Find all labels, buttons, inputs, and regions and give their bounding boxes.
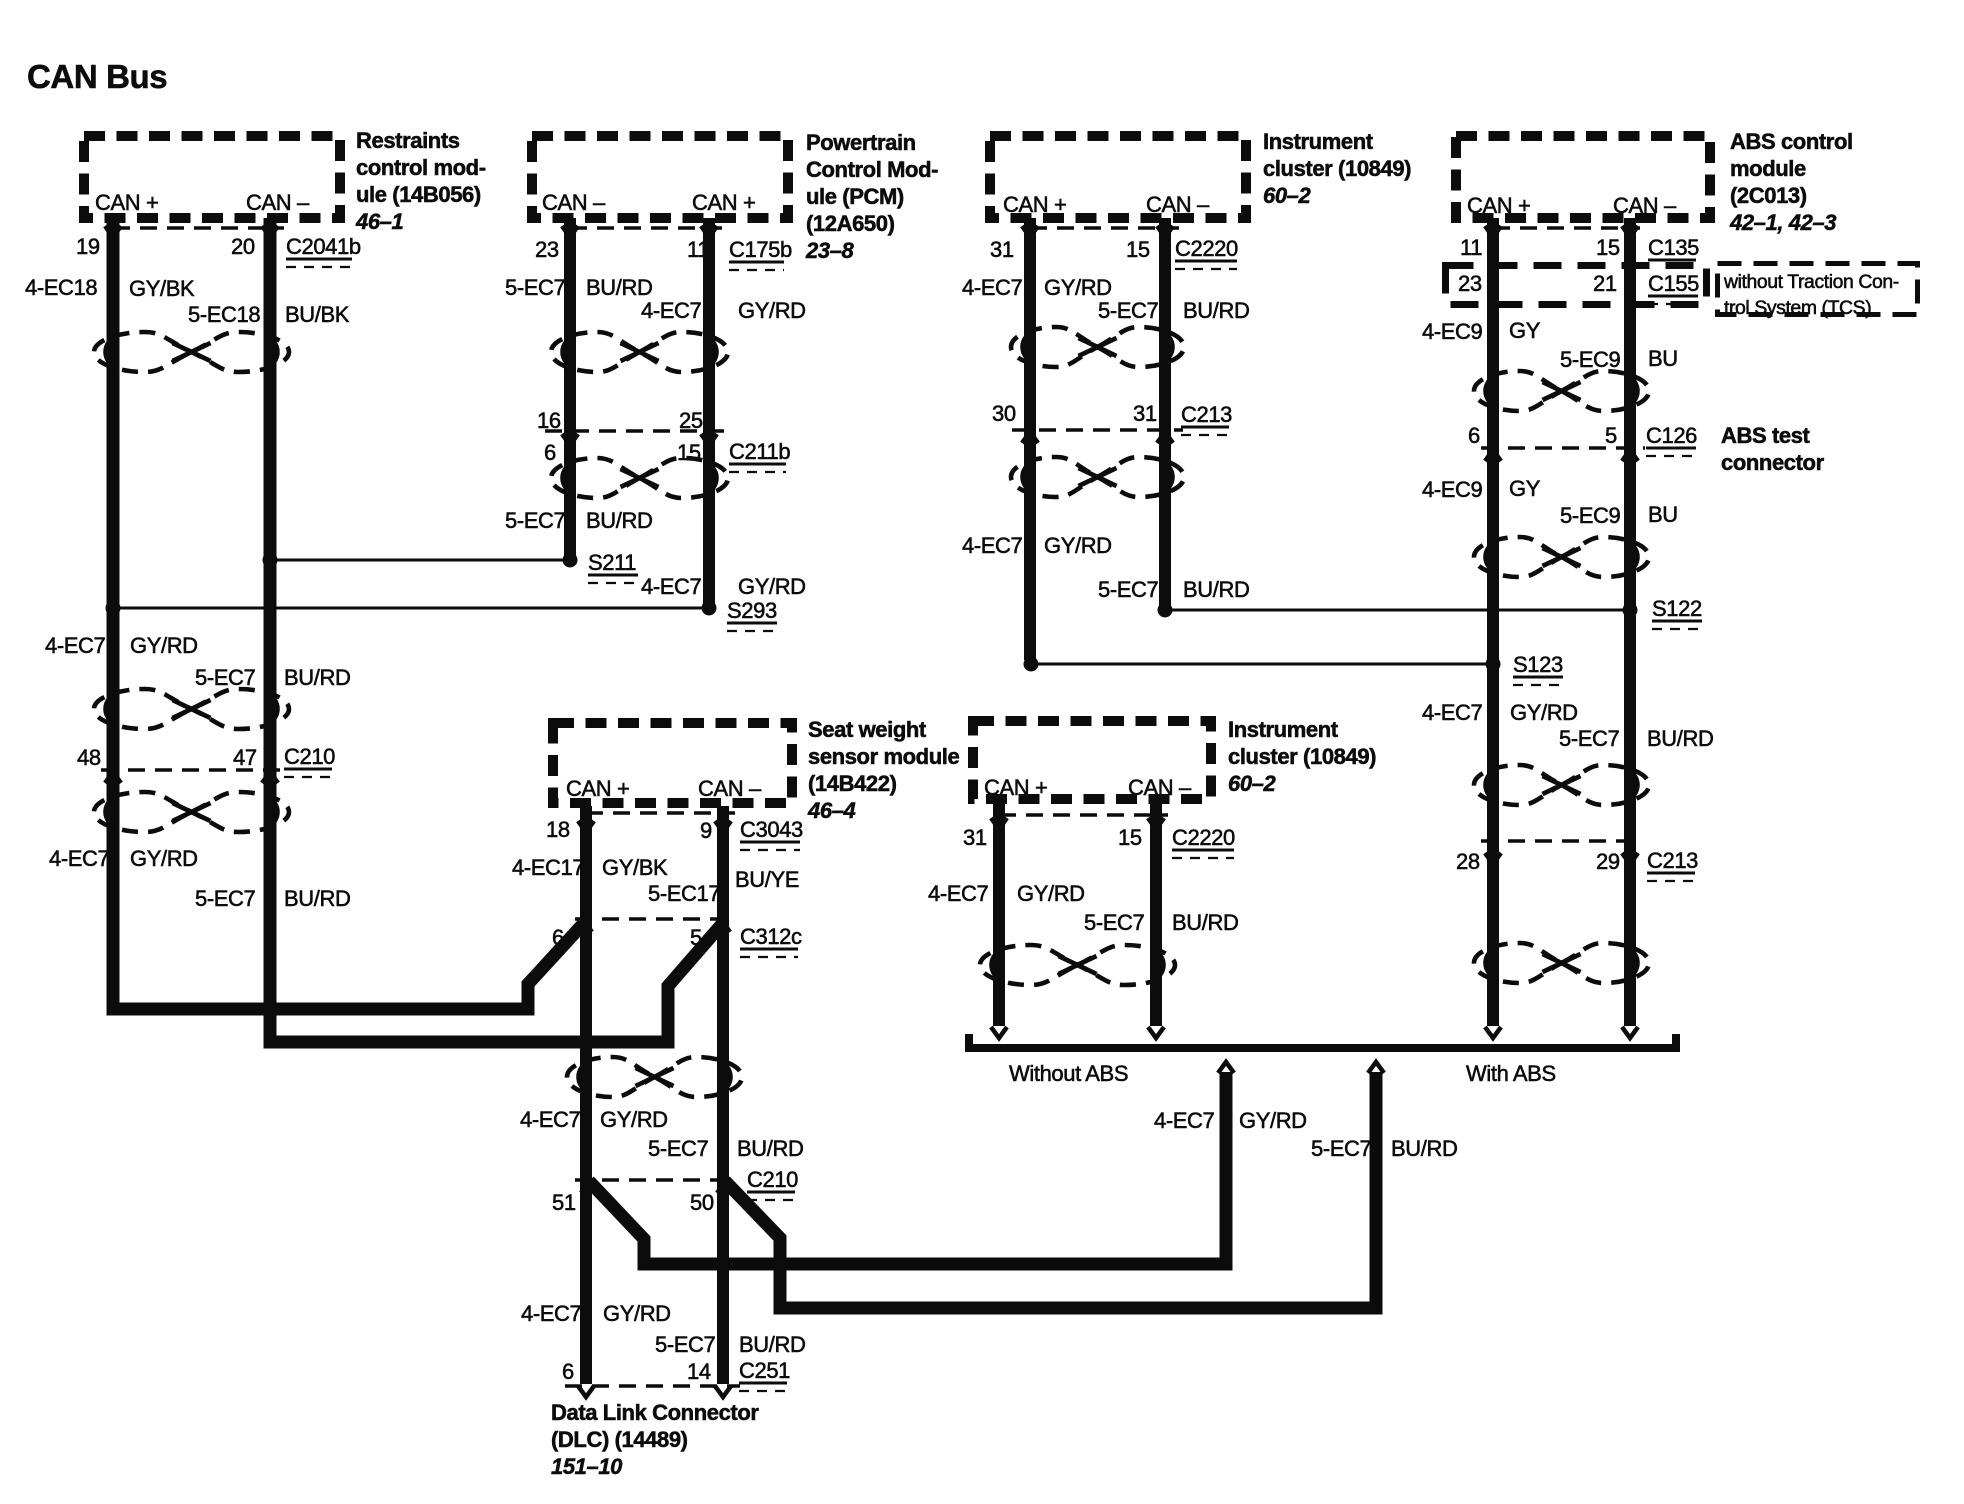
twisted pair IC1 upper: [1011, 327, 1184, 367]
svg-text:23–8: 23–8: [805, 238, 855, 263]
svg-text:CAN –: CAN –: [1146, 192, 1210, 217]
svg-text:15: 15: [1126, 237, 1150, 262]
wire: seat module CAN- through C312c C210 to DLC pin 14: [717, 806, 729, 1384]
junction dot S122 on IC1 CAN-: [1158, 603, 1173, 618]
svg-text:With ABS: With ABS: [1466, 1061, 1556, 1086]
svg-text:S293: S293: [727, 598, 777, 623]
svg-text:C210: C210: [284, 744, 335, 769]
connector C2220 label upper: [1175, 236, 1238, 269]
svg-text:GY: GY: [1509, 476, 1541, 501]
svg-text:BU/YE: BU/YE: [735, 867, 799, 892]
svg-text:4-EC9: 4-EC9: [1422, 319, 1483, 344]
svg-text:connector: connector: [1721, 450, 1825, 475]
arrow pin 14 C251: [715, 1386, 731, 1397]
wire: splice line S293: [113, 607, 709, 610]
svg-text:C213: C213: [1181, 402, 1232, 427]
arrow end IC2 CAN+: [991, 1027, 1007, 1038]
arrow pin 48 C210: [105, 772, 121, 783]
text: Instrument cluster 1 name: [1263, 129, 1411, 208]
arrow pin 23 C175b: [562, 226, 578, 237]
connector C210 lower label: [747, 1167, 798, 1200]
connector C126 dashed line: [1481, 446, 1645, 450]
arrow pin 5 C126: [1622, 450, 1638, 461]
svg-text:5: 5: [1605, 423, 1617, 448]
arrow pin 31 C2220: [1022, 226, 1038, 237]
svg-text:ABS control: ABS control: [1730, 129, 1853, 154]
svg-text:ule (14B056): ule (14B056): [356, 182, 481, 207]
svg-text:30: 30: [992, 401, 1016, 426]
svg-text:23: 23: [1458, 271, 1482, 296]
svg-text:GY: GY: [1509, 318, 1541, 343]
svg-text:5: 5: [690, 925, 702, 950]
svg-text:6: 6: [552, 925, 564, 950]
svg-text:BU/RD: BU/RD: [284, 665, 350, 690]
svg-text:BU/RD: BU/RD: [739, 1332, 805, 1357]
svg-text:(2C013): (2C013): [1730, 183, 1807, 208]
twisted pair PCM lower: [551, 458, 728, 498]
svg-text:cluster (10849): cluster (10849): [1228, 744, 1376, 769]
svg-text:CAN +: CAN +: [1003, 192, 1066, 217]
connector C210 upper dashed line: [101, 768, 284, 772]
wire: instrument cluster 1 CAN- BU/RD to S122: [1159, 218, 1171, 606]
svg-text:5-EC7: 5-EC7: [195, 886, 256, 911]
arrow pin 31 C213: [1157, 432, 1173, 443]
wire: instrument cluster 2 CAN+ GY/RD: [993, 804, 1005, 1026]
svg-text:5-EC7: 5-EC7: [655, 1332, 716, 1357]
svg-text:(12A650): (12A650): [806, 211, 895, 236]
svg-text:CAN Bus: CAN Bus: [27, 58, 167, 95]
svg-text:GY/BK: GY/BK: [129, 276, 195, 301]
arrow end IC2 CAN-: [1148, 1027, 1164, 1038]
wire: restraints CAN+ GY/BK to C312c pin 6: [113, 218, 583, 1009]
connector C211b label: [729, 439, 790, 472]
wire: ABS CAN- BU vertical: [1624, 218, 1636, 1026]
svg-text:5-EC17: 5-EC17: [648, 881, 720, 906]
svg-text:GY/RD: GY/RD: [738, 574, 806, 599]
svg-text:module: module: [1730, 156, 1806, 181]
svg-text:BU/RD: BU/RD: [1183, 577, 1249, 602]
svg-text:5-EC9: 5-EC9: [1560, 503, 1621, 528]
svg-text:BU/RD: BU/RD: [586, 275, 652, 300]
connector C3043 dashed line: [586, 811, 735, 815]
connector C213 label: [1181, 402, 1232, 435]
svg-text:5-EC7: 5-EC7: [1084, 910, 1145, 935]
wire: instrument cluster 1 CAN+ GY/RD to S123: [1024, 218, 1036, 660]
svg-text:5-EC7: 5-EC7: [648, 1136, 709, 1161]
svg-text:CAN +: CAN +: [566, 776, 629, 801]
splice S211 dot: [563, 553, 578, 568]
svg-text:50: 50: [690, 1190, 714, 1215]
svg-text:5-EC7: 5-EC7: [1559, 726, 1620, 751]
svg-text:21: 21: [1593, 271, 1617, 296]
svg-text:GY/RD: GY/RD: [1044, 533, 1112, 558]
twisted pair seat module: [567, 1057, 742, 1097]
arrow pin 28 C213: [1485, 853, 1501, 864]
svg-text:CAN –: CAN –: [542, 190, 606, 215]
arrow end ABS CAN-: [1622, 1027, 1638, 1038]
svg-text:28: 28: [1456, 849, 1480, 874]
wire: PCM CAN+ GY/RD to S293: [703, 218, 715, 604]
arrow pin 19 C2041b: [105, 226, 121, 237]
splice S123 dot on ABS CAN+: [1486, 657, 1501, 672]
module box: ABS control module (2C013): [1456, 136, 1710, 218]
twisted pair restraints third: [94, 792, 289, 832]
connector C2041b dashed line: [113, 226, 284, 230]
connector C312c dashed line: [575, 917, 736, 921]
twisted pair restraints: [94, 332, 289, 372]
svg-text:4-EC7: 4-EC7: [1154, 1108, 1215, 1133]
svg-text:S123: S123: [1513, 652, 1563, 677]
connector C210 lower dashed line: [575, 1178, 736, 1182]
junction dot S211 on restraints CAN-: [263, 553, 278, 568]
arrow pin 5 C312c: [714, 921, 730, 932]
arrow pin 29 C213: [1622, 853, 1638, 864]
svg-text:5-EC18: 5-EC18: [188, 302, 260, 327]
connector C126 label: [1646, 423, 1697, 456]
text: Seat weight sensor module name: [807, 717, 959, 823]
svg-text:BU/RD: BU/RD: [1172, 910, 1238, 935]
svg-text:4-EC7: 4-EC7: [520, 1107, 581, 1132]
svg-text:CAN +: CAN +: [95, 190, 158, 215]
arrow pin 51 C210: [581, 1182, 597, 1193]
svg-text:31: 31: [1133, 401, 1157, 426]
connector C213 lower label: [1647, 848, 1698, 881]
svg-text:19: 19: [76, 234, 100, 259]
svg-text:without Traction Con-: without Traction Con-: [1723, 271, 1899, 293]
arrow pin 15 C2220 lower: [1148, 818, 1164, 829]
svg-text:C2220: C2220: [1175, 236, 1238, 261]
svg-text:60–2: 60–2: [1263, 183, 1312, 208]
svg-text:GY/BK: GY/BK: [602, 855, 668, 880]
svg-text:GY/RD: GY/RD: [1017, 881, 1085, 906]
svg-text:C126: C126: [1646, 423, 1697, 448]
splice S293 label: [727, 598, 777, 631]
wire: instrument cluster 2 CAN- BU/RD: [1150, 804, 1162, 1026]
svg-text:GY/RD: GY/RD: [603, 1301, 671, 1326]
svg-text:4-EC18: 4-EC18: [25, 275, 97, 300]
svg-text:Control Mod-: Control Mod-: [806, 157, 938, 182]
svg-text:trol System (TCS): trol System (TCS): [1724, 297, 1871, 319]
svg-text:4-EC7: 4-EC7: [641, 298, 702, 323]
text: without Traction Control System note: [1723, 271, 1899, 319]
text: Data Link Connector name: [551, 1400, 759, 1479]
connector box C155: [1446, 266, 1707, 305]
text: PCM module name: [805, 130, 938, 263]
svg-text:Restraints: Restraints: [356, 128, 460, 153]
svg-text:GY/RD: GY/RD: [130, 633, 198, 658]
svg-text:14: 14: [687, 1359, 711, 1384]
svg-text:C155: C155: [1648, 271, 1699, 296]
svg-text:4-EC9: 4-EC9: [1422, 477, 1483, 502]
svg-text:BU: BU: [1648, 346, 1678, 371]
twisted pair ABS fourth: [1474, 943, 1649, 983]
svg-text:Without ABS: Without ABS: [1009, 1061, 1128, 1086]
svg-text:5-EC9: 5-EC9: [1560, 347, 1621, 372]
arrow end ABS CAN+: [1485, 1027, 1501, 1038]
arrow pin 15 C2220: [1157, 226, 1173, 237]
arrow pin 20 C2041b: [262, 226, 278, 237]
svg-text:6: 6: [544, 440, 556, 465]
arrow pin 15 C211b: [701, 434, 717, 445]
svg-text:4-EC7: 4-EC7: [45, 633, 106, 658]
wire: splice line S122: [1165, 609, 1630, 612]
connector C2220 lower dashed line: [999, 813, 1168, 817]
svg-text:29: 29: [1596, 849, 1620, 874]
connector C213 lower dashed line: [1481, 839, 1643, 843]
wire: splice line S211: [270, 559, 570, 562]
svg-text:S211: S211: [588, 550, 636, 575]
svg-text:5-EC7: 5-EC7: [505, 508, 566, 533]
module box: Instrument cluster (10849) lower: [973, 721, 1211, 799]
svg-text:BU/RD: BU/RD: [1183, 298, 1249, 323]
svg-text:31: 31: [963, 825, 987, 850]
svg-text:Data Link Connector: Data Link Connector: [551, 1400, 759, 1425]
svg-text:BU/RD: BU/RD: [1647, 726, 1713, 751]
svg-text:C251: C251: [739, 1358, 790, 1383]
text: Instrument cluster 2 name: [1228, 717, 1376, 796]
svg-text:46–4: 46–4: [807, 798, 856, 823]
svg-text:11: 11: [1460, 235, 1482, 260]
svg-text:4-EC7: 4-EC7: [49, 846, 110, 871]
module box: Seat weight sensor module (14B422): [553, 723, 792, 803]
svg-text:4-EC7: 4-EC7: [641, 574, 702, 599]
svg-text:ule (PCM): ule (PCM): [806, 184, 904, 209]
module box: Powertrain Control Module PCM (12A650): [532, 136, 788, 218]
svg-text:CAN –: CAN –: [1613, 193, 1677, 218]
arrow pin 30 C213: [1022, 432, 1038, 443]
arrow pin 31 C2220 lower: [991, 818, 1007, 829]
module box: Instrument cluster (10849) upper: [990, 136, 1246, 218]
connector C2041b label: [286, 234, 361, 267]
arrow pin 9 C3043: [715, 821, 731, 832]
twisted pair IC2: [980, 945, 1175, 985]
twisted pair restraints second: [94, 689, 289, 729]
svg-text:GY/RD: GY/RD: [1044, 275, 1112, 300]
svg-text:4-EC17: 4-EC17: [512, 855, 584, 880]
wire: DLC pin 51 branch GY/RD to Without ABS: [589, 1072, 1226, 1264]
svg-text:48: 48: [77, 745, 101, 770]
svg-text:C213: C213: [1647, 848, 1698, 873]
connector C135 label: [1648, 235, 1699, 260]
svg-text:5-EC7: 5-EC7: [195, 665, 256, 690]
svg-text:GY/RD: GY/RD: [1239, 1108, 1307, 1133]
svg-text:5-EC7: 5-EC7: [505, 275, 566, 300]
svg-text:C135: C135: [1648, 235, 1699, 260]
svg-text:20: 20: [231, 234, 255, 259]
wire: PCM CAN- BU/RD to S211: [564, 218, 576, 556]
svg-text:11: 11: [687, 237, 709, 262]
text: ABS control module name: [1729, 129, 1853, 235]
svg-text:CAN +: CAN +: [692, 190, 755, 215]
svg-text:cluster (10849): cluster (10849): [1263, 156, 1411, 181]
svg-text:BU: BU: [1648, 502, 1678, 527]
svg-text:C175b: C175b: [729, 237, 792, 262]
svg-text:5-EC7: 5-EC7: [1098, 577, 1159, 602]
junction dot S293 on restraints CAN+: [106, 601, 121, 616]
svg-text:(DLC) (14489): (DLC) (14489): [551, 1427, 688, 1452]
connector C175b dashed line: [570, 226, 722, 230]
connector C155 label: [1648, 271, 1699, 304]
svg-text:CAN –: CAN –: [1128, 775, 1192, 800]
svg-text:15: 15: [1596, 235, 1620, 260]
connector C251 dashed line: [565, 1384, 740, 1388]
splice S122 label: [1652, 596, 1702, 629]
svg-text:4-EC7: 4-EC7: [928, 881, 989, 906]
svg-text:Instrument: Instrument: [1228, 717, 1339, 742]
svg-text:GY/RD: GY/RD: [1510, 700, 1578, 725]
svg-text:23: 23: [535, 237, 559, 262]
splice S293 dot: [702, 601, 717, 616]
svg-text:42–1, 42–3: 42–1, 42–3: [1729, 210, 1836, 235]
svg-text:C2041b: C2041b: [286, 234, 361, 259]
svg-text:31: 31: [990, 237, 1014, 262]
svg-text:51: 51: [552, 1190, 576, 1215]
svg-text:46–1: 46–1: [355, 209, 404, 234]
wire: splice line S123: [1031, 663, 1493, 666]
svg-text:BU/RD: BU/RD: [737, 1136, 803, 1161]
svg-text:C210: C210: [747, 1167, 798, 1192]
svg-text:BU/BK: BU/BK: [285, 302, 350, 327]
arrow pin 6 C312c: [576, 921, 592, 932]
svg-text:4-EC7: 4-EC7: [962, 275, 1023, 300]
arrow pin 18 C3043: [578, 821, 594, 832]
twisted pair IC1 lower: [1011, 457, 1184, 497]
connector C213 dashed line: [1012, 428, 1183, 432]
svg-text:C312c: C312c: [740, 924, 802, 949]
svg-text:CAN –: CAN –: [246, 190, 310, 215]
svg-text:ABS test: ABS test: [1721, 423, 1811, 448]
svg-text:Instrument: Instrument: [1263, 129, 1374, 154]
text: Restraints control module name: [355, 128, 486, 234]
arrow branch With ABS: [1368, 1062, 1384, 1073]
twisted pair ABS second: [1474, 537, 1649, 577]
arrow pin 6 C251: [578, 1386, 594, 1397]
arrow branch Without ABS: [1218, 1062, 1234, 1073]
splice S211 label: [588, 550, 638, 583]
connector C3043 label: [740, 817, 803, 850]
svg-text:15: 15: [1118, 825, 1142, 850]
twisted pair ABS upper: [1474, 371, 1649, 411]
arrow pin 15 C135: [1622, 226, 1638, 237]
svg-text:47: 47: [233, 745, 257, 770]
svg-text:4-EC7: 4-EC7: [962, 533, 1023, 558]
connector C210 upper label: [284, 744, 335, 777]
svg-text:4-EC7: 4-EC7: [521, 1301, 582, 1326]
arrow pin 11 C175b: [701, 226, 717, 237]
connector C2220 lower label: [1172, 825, 1235, 858]
svg-text:BU/RD: BU/RD: [284, 886, 350, 911]
wire: bottom bracket line Without/With ABS: [969, 1034, 1676, 1048]
twisted pair PCM upper: [551, 332, 728, 372]
connector C211b dashed line: [545, 429, 725, 433]
connector C135 dashed line: [1493, 226, 1640, 230]
connector C251 label: [739, 1358, 790, 1391]
connector C175b label: [729, 237, 792, 270]
svg-text:5-EC7: 5-EC7: [1098, 298, 1159, 323]
svg-text:sensor module: sensor module: [808, 744, 959, 769]
arrow pin 6 C126: [1485, 450, 1501, 461]
svg-text:(14B422): (14B422): [808, 771, 897, 796]
svg-text:BU/RD: BU/RD: [586, 508, 652, 533]
wire: restraints CAN- BU/BK to C312c pin 5: [270, 218, 722, 1042]
splice S123 label: [1513, 652, 1563, 685]
wire: ABS CAN+ GY vertical: [1487, 218, 1499, 1026]
svg-text:6: 6: [1468, 423, 1480, 448]
svg-text:GY/RD: GY/RD: [600, 1107, 668, 1132]
arrow pin 6 C211b: [562, 434, 578, 445]
svg-text:C3043: C3043: [740, 817, 803, 842]
svg-text:S122: S122: [1652, 596, 1702, 621]
svg-text:5-EC7: 5-EC7: [1311, 1136, 1372, 1161]
svg-text:9: 9: [700, 818, 712, 843]
svg-text:GY/RD: GY/RD: [130, 846, 198, 871]
svg-text:4-EC7: 4-EC7: [1422, 700, 1483, 725]
wire: seat module CAN+ through C312c C210 to DLC pin 6: [580, 806, 592, 1384]
svg-text:GY/RD: GY/RD: [738, 298, 806, 323]
connector C312c label: [740, 924, 802, 957]
svg-text:Powertrain: Powertrain: [806, 130, 916, 155]
svg-text:C211b: C211b: [729, 439, 790, 464]
svg-text:6: 6: [562, 1359, 574, 1384]
splice S122 dot on ABS CAN-: [1623, 603, 1638, 618]
svg-text:CAN +: CAN +: [1467, 193, 1530, 218]
svg-text:Seat weight: Seat weight: [808, 717, 927, 742]
arrow pin 47 C210: [262, 772, 278, 783]
wire: DLC pin 50 branch BU/RD to With ABS: [725, 1072, 1376, 1308]
arrow pin 50 C210: [717, 1182, 733, 1193]
svg-text:BU/RD: BU/RD: [1391, 1136, 1457, 1161]
junction dot S123 on IC1 CAN+: [1024, 657, 1039, 672]
svg-text:18: 18: [546, 817, 570, 842]
note box without TCS: [1718, 264, 1918, 315]
text: ABS test connector: [1721, 423, 1825, 475]
svg-text:C2220: C2220: [1172, 825, 1235, 850]
connector C2220 dashed line upper: [1030, 226, 1179, 230]
svg-text:control mod-: control mod-: [356, 155, 486, 180]
svg-text:CAN –: CAN –: [698, 776, 762, 801]
twisted pair ABS third: [1474, 765, 1649, 805]
arrow pin 11 C135: [1485, 226, 1501, 237]
svg-text:CAN +: CAN +: [984, 775, 1047, 800]
svg-text:60–2: 60–2: [1228, 771, 1277, 796]
svg-text:151–10: 151–10: [551, 1454, 623, 1479]
module box: Restraints control module (14B056): [84, 136, 340, 218]
